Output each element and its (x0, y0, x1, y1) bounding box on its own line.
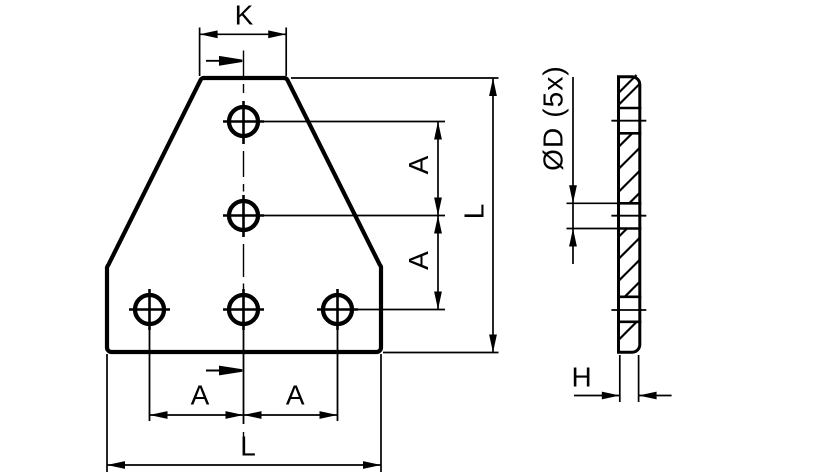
svg-text:A: A (403, 251, 434, 270)
dimension OD label (537, 65, 568, 171)
svg-text:H: H (571, 362, 591, 393)
dimension A right lower line (437, 216, 439, 310)
side view hatching segment B (619, 133, 633, 147)
side view hole 2 bore lines (617, 202, 641, 205)
side view hole 1 bore lines (617, 107, 641, 110)
datum arrow bottom (206, 370, 224, 372)
dimension K line (200, 33, 287, 35)
dimension H line (574, 395, 620, 397)
dimension A right upper label (403, 155, 434, 174)
dimension L bottom extension lines (106, 354, 108, 472)
side view plate outline (619, 77, 640, 353)
dimension L right label (459, 204, 490, 220)
svg-text:ØD (5x): ØD (5x) (537, 65, 568, 171)
hole H3 bottom-left (135, 295, 164, 324)
dimension H extension lines (619, 355, 621, 402)
dimension OD extension lines (567, 202, 619, 204)
dimension A right upper line (437, 122, 439, 216)
dimension A bottom-right line (244, 414, 338, 416)
centerline vertical axis (243, 51, 245, 79)
dimension L bottom line (107, 464, 381, 466)
dimension K extension lines (199, 28, 201, 77)
dimension L right extension lines (291, 77, 499, 79)
svg-text:A: A (403, 155, 434, 174)
hole H1 top (229, 107, 258, 136)
svg-text:A: A (286, 380, 305, 411)
svg-text:L: L (459, 204, 490, 220)
dimension L right line (492, 78, 494, 353)
svg-text:K: K (235, 0, 254, 31)
svg-text:A: A (191, 380, 210, 411)
dimension OD leader lines (572, 77, 574, 203)
dimension A right lower label (403, 251, 434, 270)
hole H2 middle (229, 201, 258, 230)
hole H4 bottom-mid (229, 295, 258, 324)
side view hole 3 bore lines (617, 295, 641, 298)
front view plate outline (107, 78, 381, 352)
dimension A bottom-left line (150, 414, 244, 416)
hole H5 bottom-right (323, 295, 352, 324)
side view hatching segment D (619, 322, 637, 340)
svg-text:L: L (240, 431, 256, 462)
datum arrow top (206, 60, 224, 62)
side view hatching segment A (619, 75, 637, 93)
side view hatching segment C (619, 229, 628, 238)
